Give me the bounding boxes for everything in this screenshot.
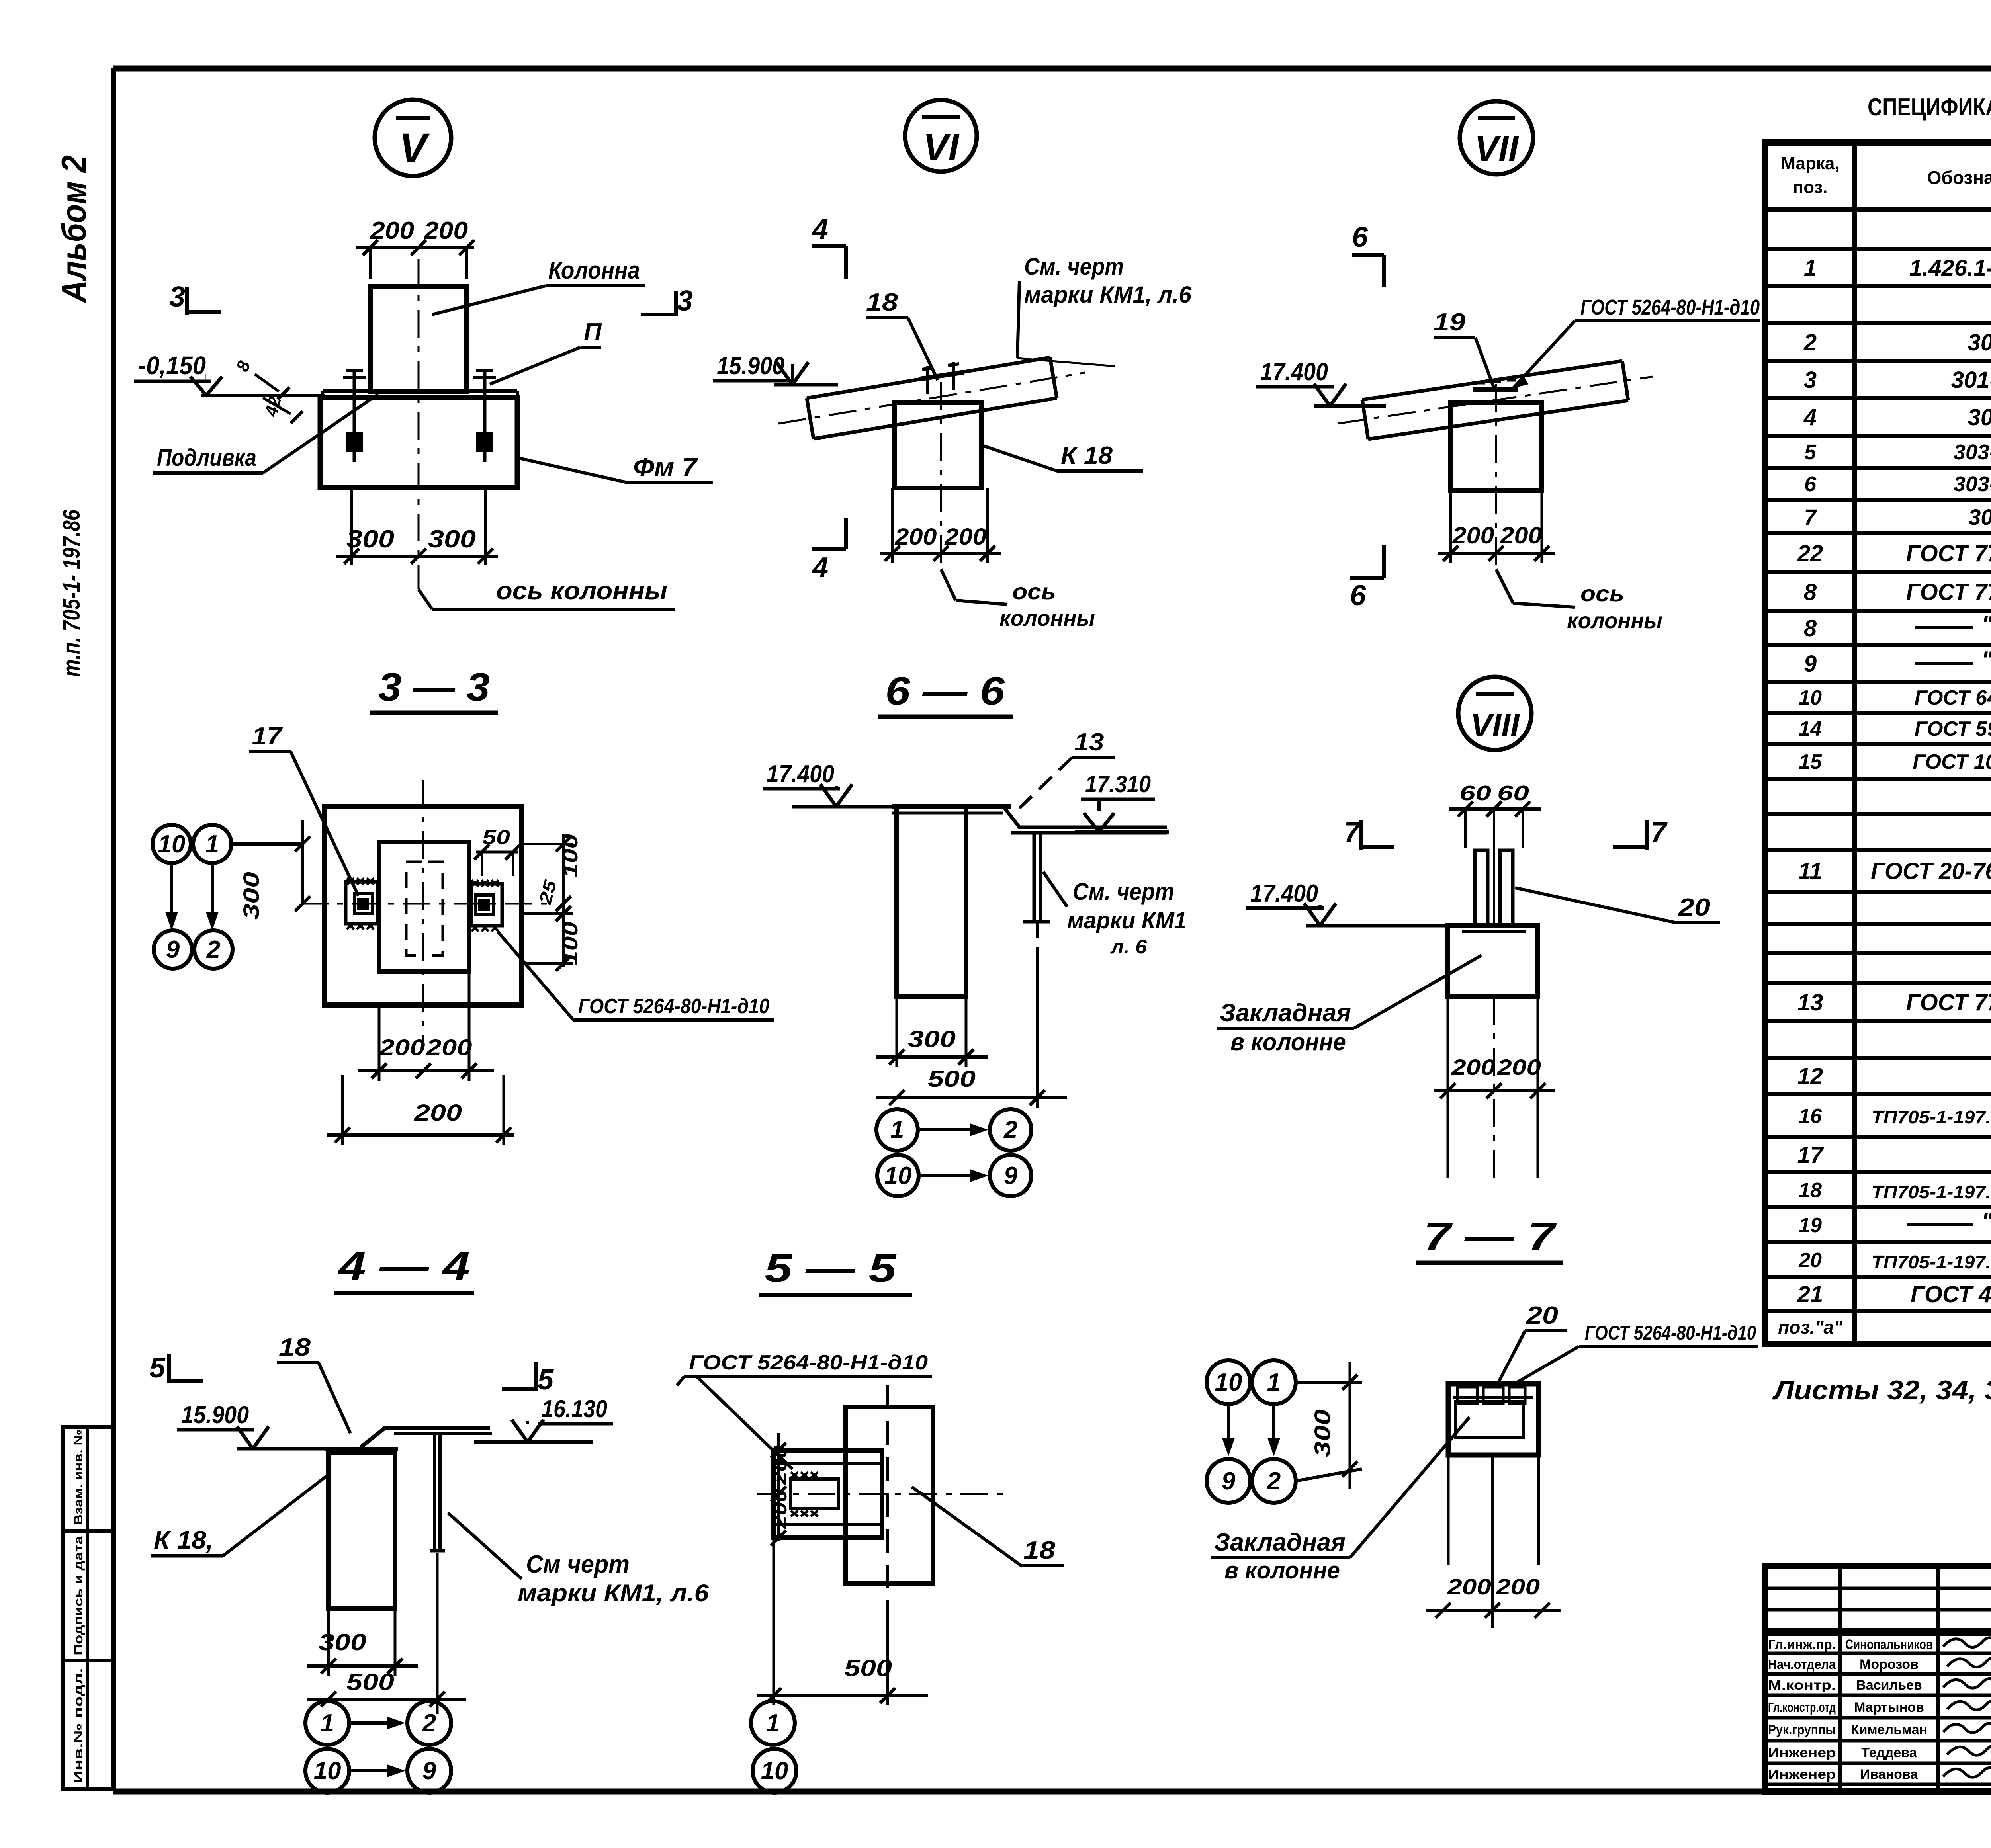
svg-text:200: 200 xyxy=(379,1035,425,1060)
svg-text:в колонне: в колонне xyxy=(1224,1557,1340,1584)
svg-text:300: 300 xyxy=(346,525,394,553)
svg-text:ГОСТ 20-76: ГОСТ 20-76 xyxy=(1871,858,1991,884)
svg-text:1: 1 xyxy=(1267,1369,1281,1396)
svg-text:VI: VI xyxy=(923,126,960,168)
svg-text:ось: ось xyxy=(1580,581,1624,606)
svg-text:5: 5 xyxy=(1804,440,1817,464)
svg-text:10: 10 xyxy=(1799,686,1822,709)
section 7-7 channel detail xyxy=(1448,1384,1539,1455)
svg-text:ГОСТ 5264-80-Н1-д10: ГОСТ 5264-80-Н1-д10 xyxy=(578,995,769,1018)
svg-text:500: 500 xyxy=(346,1669,394,1695)
svg-text:304: 304 xyxy=(1968,504,1991,529)
svg-text:301-01: 301-01 xyxy=(1951,367,1991,393)
svg-text:7 — 7: 7 — 7 xyxy=(1424,1214,1557,1259)
detail VIII circle xyxy=(1458,677,1531,750)
detail VI column xyxy=(894,403,982,488)
detail VII column centerline xyxy=(1495,384,1497,569)
detail VIII embedded plates xyxy=(1475,850,1488,926)
svg-text:8: 8 xyxy=(1804,615,1817,641)
svg-text:ось: ось xyxy=(1012,579,1056,604)
detail V circle xyxy=(375,100,451,176)
svg-text:1: 1 xyxy=(321,1709,334,1737)
svg-text:ГОСТ 5915-70*: ГОСТ 5915-70* xyxy=(1915,717,1991,740)
svg-text:10: 10 xyxy=(761,1757,788,1785)
svg-text:ГОСТ 7798-70*: ГОСТ 7798-70* xyxy=(1906,541,1991,567)
svg-text:2: 2 xyxy=(1003,1116,1017,1144)
section 3-3 column plan xyxy=(325,807,522,1005)
svg-text:18: 18 xyxy=(1023,1537,1056,1564)
title block xyxy=(1765,1566,1991,1791)
svg-text:8: 8 xyxy=(1804,579,1817,605)
svg-text:Нач.отдела: Нач.отдела xyxy=(1768,1657,1836,1672)
section 7-7 position circles xyxy=(1207,1360,1250,1404)
detail VII inclined beam xyxy=(1362,361,1622,400)
section 5-5 plan of connection xyxy=(846,1407,933,1583)
svg-text:": " xyxy=(1981,647,1991,673)
svg-text:200: 200 xyxy=(770,1489,791,1530)
svg-text:17.400: 17.400 xyxy=(1250,880,1318,907)
svg-text:4: 4 xyxy=(812,552,828,584)
svg-text:16.130: 16.130 xyxy=(542,1395,607,1423)
svg-text:См. черт: См. черт xyxy=(1024,253,1124,280)
section 7-7 dim 300 xyxy=(1296,1381,1362,1384)
svg-text:Иванова: Иванова xyxy=(1860,1767,1919,1782)
svg-text:3 — 3: 3 — 3 xyxy=(378,665,490,709)
svg-text:ГОСТ 5264-80-Н1-д10: ГОСТ 5264-80-Н1-д10 xyxy=(1580,295,1760,319)
svg-text:300: 300 xyxy=(239,872,264,920)
svg-text:200: 200 xyxy=(426,1035,472,1060)
svg-text:ТП705-1-197.86КЖИ МС1: ТП705-1-197.86КЖИ МС1 xyxy=(1872,1252,1991,1272)
section 7-7 dims 200 200 xyxy=(1447,1455,1450,1565)
svg-text:ГОСТ 10906-78: ГОСТ 10906-78 xyxy=(1913,750,1991,774)
detail VIII dim 200 200 xyxy=(1447,997,1449,1178)
svg-text:20: 20 xyxy=(1678,894,1710,921)
svg-text:300: 300 xyxy=(428,525,476,553)
svg-text:5 — 5: 5 — 5 xyxy=(765,1246,897,1291)
svg-text:Синопальников: Синопальников xyxy=(1845,1637,1933,1652)
svg-text:3: 3 xyxy=(169,281,185,313)
svg-text:9: 9 xyxy=(422,1757,436,1785)
svg-text:": " xyxy=(1981,611,1991,638)
svg-text:10: 10 xyxy=(158,830,186,858)
svg-text:Листы 32, 34, 35 рассматрива: Листы 32, 34, 35 рассматривать совместно… xyxy=(1772,1375,1991,1405)
svg-text:12: 12 xyxy=(1797,1063,1823,1089)
detail V column xyxy=(370,287,467,391)
svg-text:7: 7 xyxy=(1804,504,1817,529)
svg-text:ТП705-1-197.86КЖИ МС2: ТП705-1-197.86КЖИ МС2 xyxy=(1872,1182,1991,1202)
detail VI circle xyxy=(905,100,977,172)
detail V foundation xyxy=(320,398,517,488)
svg-text:19: 19 xyxy=(1799,1214,1822,1237)
svg-text:3: 3 xyxy=(1804,367,1817,393)
svg-text:13: 13 xyxy=(1074,729,1104,756)
svg-text:14: 14 xyxy=(1799,717,1822,740)
svg-text:марки КМ1, л.6: марки КМ1, л.6 xyxy=(518,1580,709,1606)
spec table grid and header xyxy=(1765,143,1991,1344)
svg-text:в колонне: в колонне xyxy=(1230,1029,1346,1055)
svg-text:6: 6 xyxy=(1352,221,1368,253)
section 3-3 position circles xyxy=(153,825,191,863)
detail V column centerline xyxy=(418,259,420,589)
svg-text:Взам. инв. №: Взам. инв. № xyxy=(72,1429,85,1525)
svg-text:ГОСТ 6402-70*: ГОСТ 6402-70* xyxy=(1915,686,1991,709)
svg-text:1: 1 xyxy=(205,830,219,858)
svg-text:4: 4 xyxy=(812,213,828,245)
svg-text:1: 1 xyxy=(766,1709,780,1737)
svg-text:1: 1 xyxy=(1804,255,1817,281)
svg-text:301: 301 xyxy=(1968,330,1991,356)
svg-text:21: 21 xyxy=(1797,1281,1823,1307)
svg-text:л. 6: л. 6 xyxy=(1110,936,1147,958)
svg-text:18: 18 xyxy=(866,289,898,316)
detail VII circle xyxy=(1460,101,1533,174)
svg-text:Гл.констр.отд: Гл.констр.отд xyxy=(1768,1700,1836,1715)
margin stamp boxes xyxy=(63,1427,113,1789)
svg-text:колонны: колонны xyxy=(1567,608,1662,633)
svg-text:200: 200 xyxy=(1496,1574,1540,1599)
svg-text:К 18,: К 18, xyxy=(154,1526,213,1554)
svg-text:60: 60 xyxy=(1497,782,1529,805)
svg-text:20: 20 xyxy=(1526,1302,1558,1329)
svg-text:П: П xyxy=(584,318,602,346)
section 4-4 column with bent plate xyxy=(329,1452,395,1608)
detail VII column xyxy=(1451,403,1542,490)
svg-text:ГОСТ 7798-70*: ГОСТ 7798-70* xyxy=(1906,990,1991,1016)
detail VIII column xyxy=(1448,926,1538,997)
svg-text:9: 9 xyxy=(166,936,180,963)
svg-text:15.900: 15.900 xyxy=(181,1401,249,1429)
drawing frame border xyxy=(113,66,1991,72)
svg-text:200: 200 xyxy=(894,524,937,550)
svg-text:17.400: 17.400 xyxy=(1260,358,1328,386)
svg-text:": " xyxy=(1981,1208,1991,1235)
section 4-4 position circles xyxy=(305,1701,349,1745)
detail V anchor bolts xyxy=(353,372,356,462)
svg-text:6: 6 xyxy=(1350,580,1366,611)
svg-text:Марка,: Марка, xyxy=(1781,154,1839,173)
svg-text:7: 7 xyxy=(1344,817,1361,848)
svg-text:9: 9 xyxy=(1222,1467,1236,1495)
svg-text:10: 10 xyxy=(314,1757,341,1785)
svg-text:6 — 6: 6 — 6 xyxy=(885,669,1005,713)
svg-text:200: 200 xyxy=(1497,1055,1541,1080)
svg-text:См. черт: См. черт xyxy=(1073,878,1174,905)
svg-text:300: 300 xyxy=(319,1629,366,1655)
svg-text:50: 50 xyxy=(482,826,510,848)
svg-text:300: 300 xyxy=(908,1026,956,1052)
svg-text:Васильев: Васильев xyxy=(1856,1678,1922,1693)
svg-text:200: 200 xyxy=(944,524,986,550)
svg-text:Теддева: Теддева xyxy=(1861,1745,1917,1760)
svg-text:ТП705-1-197.86КЖИ МС4: ТП705-1-197.86КЖИ МС4 xyxy=(1872,1107,1991,1127)
svg-text:303-02: 303-02 xyxy=(1954,472,1991,496)
svg-text:поз.: поз. xyxy=(1793,178,1828,197)
svg-text:13: 13 xyxy=(1797,990,1823,1016)
section 5-5 position circles xyxy=(751,1701,795,1745)
svg-text:200: 200 xyxy=(414,1100,462,1126)
svg-text:Альбом 2: Альбом 2 xyxy=(55,155,93,303)
svg-text:17.400: 17.400 xyxy=(767,760,834,788)
detail VI inclined beam xyxy=(807,357,1050,398)
svg-text:Подпись и дата: Подпись и дата xyxy=(72,1536,85,1655)
svg-text:200: 200 xyxy=(424,217,468,244)
section 6-6 column with plates xyxy=(897,807,966,997)
svg-text:200: 200 xyxy=(1447,1574,1491,1599)
svg-text:Фм 7: Фм 7 xyxy=(633,453,698,481)
svg-text:303: 303 xyxy=(1968,404,1991,430)
svg-text:22: 22 xyxy=(1797,541,1823,567)
svg-text:1.426.1-43 310: 1.426.1-43 310 xyxy=(1909,255,1991,281)
svg-text:15: 15 xyxy=(1799,750,1822,774)
svg-text:2: 2 xyxy=(1803,330,1817,356)
svg-text:ось колонны: ось колонны xyxy=(496,577,667,605)
svg-text:20: 20 xyxy=(1798,1249,1822,1272)
svg-text:Инженер: Инженер xyxy=(1768,1767,1836,1782)
svg-text:-0,150: -0,150 xyxy=(138,351,206,380)
svg-text:60: 60 xyxy=(1459,782,1491,805)
svg-text:15.900: 15.900 xyxy=(717,352,784,380)
section 6-6 position circles xyxy=(876,1109,918,1151)
svg-text:6: 6 xyxy=(1804,472,1817,496)
svg-text:200: 200 xyxy=(770,1445,791,1486)
svg-text:К 18: К 18 xyxy=(1061,442,1113,469)
svg-text:Рук.группы: Рук.группы xyxy=(1768,1722,1836,1737)
svg-text:7: 7 xyxy=(1651,817,1668,848)
svg-text:2: 2 xyxy=(1267,1467,1281,1495)
svg-text:колонны: колонны xyxy=(999,606,1095,631)
svg-text:Обозначение: Обозначение xyxy=(1927,167,1991,188)
svg-text:500: 500 xyxy=(928,1066,976,1092)
svg-text:М.контр.: М.контр. xyxy=(1768,1678,1836,1692)
svg-text:2: 2 xyxy=(422,1709,436,1737)
svg-text:Морозов: Морозов xyxy=(1860,1657,1919,1672)
svg-text:Инженер: Инженер xyxy=(1768,1745,1836,1760)
svg-text:5: 5 xyxy=(149,1352,166,1384)
svg-text:Мартынов: Мартынов xyxy=(1854,1700,1924,1715)
svg-text:Закладная: Закладная xyxy=(1220,999,1351,1027)
svg-text:Гл.инж.пр.: Гл.инж.пр. xyxy=(1768,1637,1836,1652)
svg-text:VII: VII xyxy=(1475,129,1519,169)
section 3-3 centerlines xyxy=(301,903,555,905)
svg-text:200: 200 xyxy=(1452,523,1494,549)
svg-text:10: 10 xyxy=(884,1162,912,1190)
svg-text:11: 11 xyxy=(1798,858,1822,884)
svg-text:поз."а": поз."а" xyxy=(1778,1317,1843,1338)
svg-text:300: 300 xyxy=(1310,1409,1335,1457)
svg-text:17: 17 xyxy=(1797,1142,1824,1168)
svg-text:ГОСТ 7798-70*: ГОСТ 7798-70* xyxy=(1906,579,1991,605)
svg-text:10: 10 xyxy=(1215,1369,1242,1396)
svg-text:5: 5 xyxy=(538,1364,554,1396)
svg-text:СПЕЦИФИКАЦИЯ ЭЛЕМЕНТОВ К СХ: СПЕЦИФИКАЦИЯ ЭЛЕМЕНТОВ К СХЕМЕ РАСПОЛОЖЕ… xyxy=(1868,94,1991,121)
detail VII weld plate xyxy=(1473,387,1518,392)
svg-text:марки КМ1: марки КМ1 xyxy=(1067,908,1187,934)
svg-text:Закладная: Закладная xyxy=(1214,1529,1346,1556)
svg-text:VIII: VIII xyxy=(1470,707,1520,744)
svg-text:200: 200 xyxy=(1451,1055,1495,1080)
svg-text:марки КМ1, л.6: марки КМ1, л.6 xyxy=(1024,282,1192,308)
svg-text:2: 2 xyxy=(206,936,220,963)
svg-text:17: 17 xyxy=(252,723,283,750)
svg-text:18: 18 xyxy=(279,1334,311,1361)
svg-text:9: 9 xyxy=(1804,651,1817,677)
svg-text:ГОСТ 5264-80-Н1-д10: ГОСТ 5264-80-Н1-д10 xyxy=(689,1351,928,1374)
svg-text:Подливка: Подливка xyxy=(157,444,256,471)
svg-text:200: 200 xyxy=(1500,523,1542,549)
svg-text:4: 4 xyxy=(1803,404,1817,430)
svg-text:18: 18 xyxy=(1799,1179,1822,1202)
svg-text:303-01: 303-01 xyxy=(1954,440,1991,464)
svg-text:17.310: 17.310 xyxy=(1085,771,1151,797)
svg-text:См черт: См черт xyxy=(526,1551,630,1578)
svg-text:Кимельман: Кимельман xyxy=(1851,1722,1927,1737)
svg-text:1: 1 xyxy=(890,1116,904,1144)
svg-text:Инв.№ подл.: Инв.№ подл. xyxy=(72,1668,85,1784)
svg-text:ГОСТ 5264-80-Н1-д10: ГОСТ 5264-80-Н1-д10 xyxy=(1585,1322,1756,1344)
svg-text:500: 500 xyxy=(844,1655,892,1681)
svg-text:3: 3 xyxy=(677,285,693,317)
svg-text:19: 19 xyxy=(1434,309,1466,336)
svg-text:9: 9 xyxy=(1004,1162,1018,1190)
svg-text:ГОСТ 4121-84: ГОСТ 4121-84 xyxy=(1911,1281,1991,1307)
svg-text:Колонна: Колонна xyxy=(548,257,640,284)
svg-text:т.п. 705-1- 197.86: т.п. 705-1- 197.86 xyxy=(58,509,85,677)
svg-text:16: 16 xyxy=(1799,1105,1822,1128)
detail V base plate xyxy=(323,389,517,393)
svg-text:V: V xyxy=(399,125,430,172)
detail VI column centerline xyxy=(940,382,942,569)
svg-text:4 — 4: 4 — 4 xyxy=(338,1244,470,1289)
